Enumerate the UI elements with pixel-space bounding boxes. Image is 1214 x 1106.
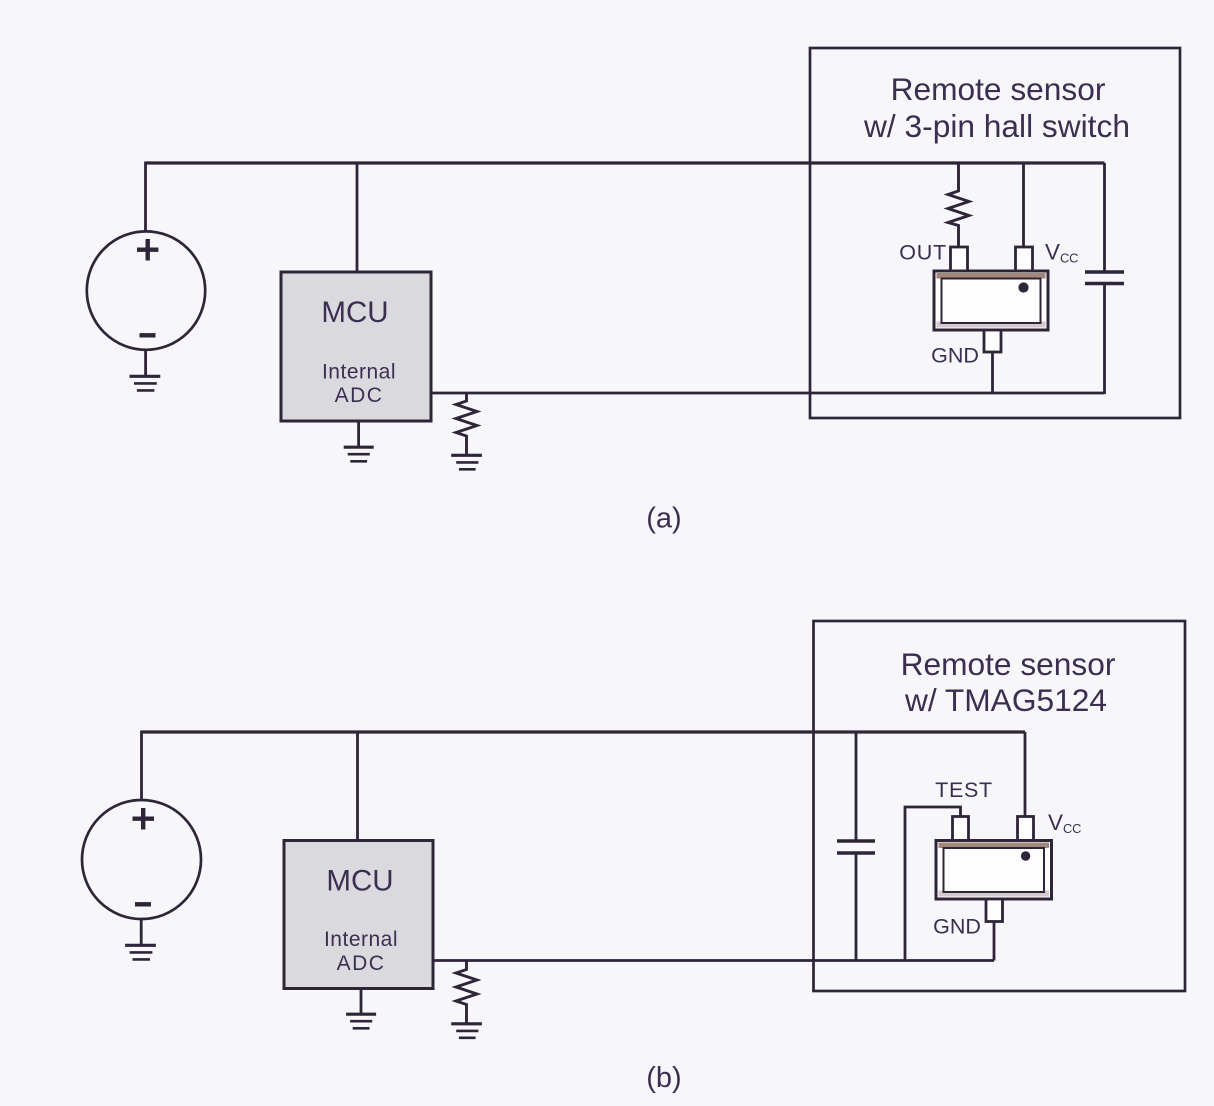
wire: V2 to ground (b) (140, 920, 143, 944)
ground symbol under R3 (b) (451, 1024, 482, 1038)
svg-text:ADC: ADC (335, 384, 384, 407)
wire: voltage source stem (a) (144, 162, 147, 232)
wire: top supply rail (b) (142, 730, 1026, 733)
wire: top supply rail (a) (145, 161, 1105, 164)
svg-text:ADC: ADC (337, 952, 386, 975)
wire: GND pin to bottom rail (b) (993, 922, 996, 961)
svg-text:OUT: OUT (899, 241, 947, 265)
svg-text:GND: GND (931, 344, 979, 368)
svg-text:GND: GND (933, 915, 981, 939)
svg-text:Remote sensor: Remote sensor (901, 646, 1116, 682)
wire: voltage source stem (b) (140, 731, 143, 801)
remote sensor box (a) (810, 48, 1180, 418)
V1 minus symbol (140, 333, 156, 337)
svg-text:Remote sensor: Remote sensor (891, 71, 1106, 107)
V2 plus symbol (133, 808, 155, 830)
svg-text:w/ TMAG5124: w/ TMAG5124 (904, 682, 1107, 718)
ground symbol under V1 (a) (130, 376, 161, 390)
capacitor C1 (a) (1085, 163, 1124, 394)
capacitor C2 (b) (837, 732, 875, 961)
V1 plus symbol (137, 239, 158, 261)
ground symbol under MCU (b) (346, 1014, 376, 1028)
Vcc pin (a) (1016, 247, 1033, 272)
Vcc pin (b) (1018, 817, 1034, 842)
wire: rail to Vcc pin (a) (1022, 163, 1025, 247)
svg-text:MCU: MCU (321, 296, 388, 329)
MCU box (b) (284, 841, 433, 989)
TEST pin (b) (953, 817, 969, 842)
resistor R1 pulldown (a) (456, 393, 477, 454)
OUT pin (a) (951, 247, 968, 272)
resistor R2 in sensor box (a) (948, 163, 969, 247)
svg-text:MCU: MCU (326, 865, 393, 898)
MCU box (a) (281, 272, 431, 421)
wire: rail to Vcc pin (b) (1024, 732, 1027, 817)
ground symbol under R1 (a) (451, 455, 482, 469)
V2 minus symbol (135, 902, 151, 906)
svg-text:(a): (a) (646, 503, 681, 535)
GND pin (b) (986, 899, 1003, 922)
resistor R3 pulldown (b) (456, 961, 477, 1023)
ground symbol under MCU (a) (344, 447, 374, 461)
GND pin (a) (984, 330, 1001, 352)
wire: MCU ADC output rail (a) (431, 392, 1105, 395)
ground symbol under V2 (b) (125, 945, 156, 959)
svg-text:(b): (b) (646, 1062, 681, 1094)
svg-text:TEST: TEST (935, 778, 993, 802)
remote sensor box (b) (814, 621, 1186, 991)
TMAG5124 package U2 (b) (936, 841, 1052, 900)
svg-text:w/ 3-pin hall switch: w/ 3-pin hall switch (863, 108, 1130, 144)
wire: rail to MCU top (a) (356, 163, 359, 272)
pin-1 dot U1 (a) (1018, 282, 1028, 292)
hall switch package U1 (a) (934, 271, 1048, 330)
wire: rail to MCU top (b) (356, 732, 359, 841)
pin-1 dot U2 (b) (1021, 851, 1030, 860)
wire: GND pin to bottom rail (a) (991, 352, 994, 393)
wire: V1 to ground (a) (144, 351, 147, 375)
wire: MCU to ground (b) (360, 989, 363, 1014)
wire: MCU ADC output rail (b) (433, 959, 994, 962)
svg-text:Internal: Internal (324, 928, 398, 951)
wire: TEST pin loop to bottom rail (b) (905, 807, 961, 961)
wire: MCU to ground (a) (357, 421, 360, 446)
voltage source V1 circle (87, 231, 205, 349)
svg-text:Internal: Internal (322, 361, 396, 384)
voltage source V2 circle (82, 800, 201, 919)
